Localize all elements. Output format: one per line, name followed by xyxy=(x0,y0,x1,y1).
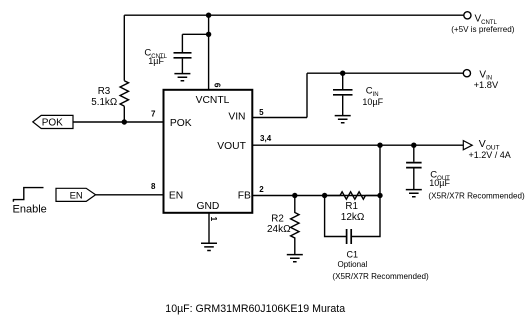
svg-text:GND: GND xyxy=(196,201,219,212)
svg-text:8: 8 xyxy=(151,182,156,191)
node FB/C1 junction xyxy=(322,193,327,198)
svg-text:2: 2 xyxy=(259,185,264,194)
ground (CIN) xyxy=(335,116,351,123)
capacitor C1 xyxy=(325,196,429,281)
terminal VOUT triangle xyxy=(463,138,510,160)
wire EN horizontal xyxy=(96,194,164,196)
resistor R3 xyxy=(91,81,128,108)
capacitor CIN xyxy=(333,86,384,107)
svg-text:7: 7 xyxy=(151,110,156,119)
svg-text:6: 6 xyxy=(212,83,222,88)
wire POK horizontal xyxy=(73,121,164,123)
svg-text:VOUT: VOUT xyxy=(217,141,246,152)
node VOUT/COUT junction xyxy=(411,143,416,148)
svg-text:5: 5 xyxy=(259,108,264,117)
wire CIN lower vertical xyxy=(342,96,344,116)
svg-text:+1.2V / 4A: +1.2V / 4A xyxy=(469,150,511,160)
svg-text:R2: R2 xyxy=(271,214,284,225)
node VOUT/R1 junction xyxy=(377,143,382,148)
svg-text:10µF: 10µF xyxy=(429,178,450,188)
wire CCNTL lower vertical xyxy=(181,59,183,74)
svg-text:(X5R/X7R Recommended): (X5R/X7R Recommended) xyxy=(332,272,429,281)
wire CCNTL tap horizontal xyxy=(182,33,208,35)
svg-text:+1.8V: +1.8V xyxy=(474,80,499,90)
ground (IC GND) xyxy=(201,243,217,250)
op-amp U1 (regulator IC body) xyxy=(164,90,253,213)
wire CIN upper vertical xyxy=(342,73,344,89)
wire R3 bottom to POK node xyxy=(123,106,125,122)
svg-text:VIN: VIN xyxy=(228,111,245,122)
node junction CCNTL tap xyxy=(206,32,211,37)
svg-text:Enable: Enable xyxy=(13,204,47,216)
svg-text:Optional: Optional xyxy=(338,260,368,269)
wire left vertical from top net down to R3 xyxy=(123,15,125,81)
svg-text:POK: POK xyxy=(170,118,192,129)
wire VCNTL pin vertical xyxy=(208,15,210,90)
svg-text:VCNTL: VCNTL xyxy=(196,95,230,106)
node Enable step waveform xyxy=(13,188,47,216)
svg-text:10µF: 10µF xyxy=(362,97,383,107)
svg-text:EN: EN xyxy=(70,191,83,202)
wire VIN net horizontal xyxy=(307,72,463,74)
node POK junction xyxy=(122,119,127,124)
svg-text:EN: EN xyxy=(169,191,183,202)
node FB/R1/VOUT junction xyxy=(377,193,382,198)
svg-text:R1: R1 xyxy=(345,201,358,212)
wire VIN pin horizontal stub xyxy=(252,117,307,119)
svg-text:10µF: GRM31MR60J106KE19 Murata: 10µF: GRM31MR60J106KE19 Murata xyxy=(165,303,345,315)
wire VIN vertical riser xyxy=(306,73,308,117)
wire FB pin horizontal xyxy=(252,195,380,197)
ground (COUT) xyxy=(406,190,422,197)
svg-text:1µF: 1µF xyxy=(148,56,164,66)
svg-text:12kΩ: 12kΩ xyxy=(341,212,365,223)
wire CCNTL upper vertical xyxy=(181,34,183,52)
node CIN junction xyxy=(340,71,345,76)
resistor R1 xyxy=(340,192,365,223)
svg-text:C1: C1 xyxy=(347,250,359,260)
node EN tag xyxy=(56,188,96,201)
capacitor CCNTL xyxy=(144,48,191,66)
wire COUT lower vertical xyxy=(413,168,415,189)
wire COUT upper vertical xyxy=(413,145,415,162)
resistor R2 xyxy=(267,196,299,255)
svg-text:3,4: 3,4 xyxy=(260,134,272,143)
svg-text:5.1kΩ: 5.1kΩ xyxy=(91,97,117,108)
ground (R2) xyxy=(287,255,303,262)
svg-text:24kΩ: 24kΩ xyxy=(267,224,291,235)
svg-text:1: 1 xyxy=(209,217,219,222)
node POK tag xyxy=(33,115,73,128)
ground (CCNTL) xyxy=(174,74,190,81)
node junction top net / VCNTL xyxy=(206,13,211,18)
svg-text:POK: POK xyxy=(42,117,63,128)
wire R1 left stub xyxy=(325,195,340,197)
terminal VCNTL xyxy=(451,12,515,34)
wire top VCNTL net horizontal xyxy=(124,14,463,16)
node FB/R2 junction xyxy=(292,193,297,198)
svg-text:R3: R3 xyxy=(98,86,111,97)
svg-text:FB: FB xyxy=(238,191,251,202)
capacitor COUT xyxy=(406,163,525,201)
wire GND pin vertical xyxy=(208,213,210,243)
svg-text:(+5V is preferred): (+5V is preferred) xyxy=(451,25,515,34)
terminal VIN xyxy=(463,69,499,90)
svg-text:(X5R/X7R Recommended): (X5R/X7R Recommended) xyxy=(428,192,525,201)
wire VOUT to R1 vertical xyxy=(379,145,381,195)
wire VOUT net horizontal xyxy=(252,144,463,146)
wire R1 right stub xyxy=(366,195,381,197)
